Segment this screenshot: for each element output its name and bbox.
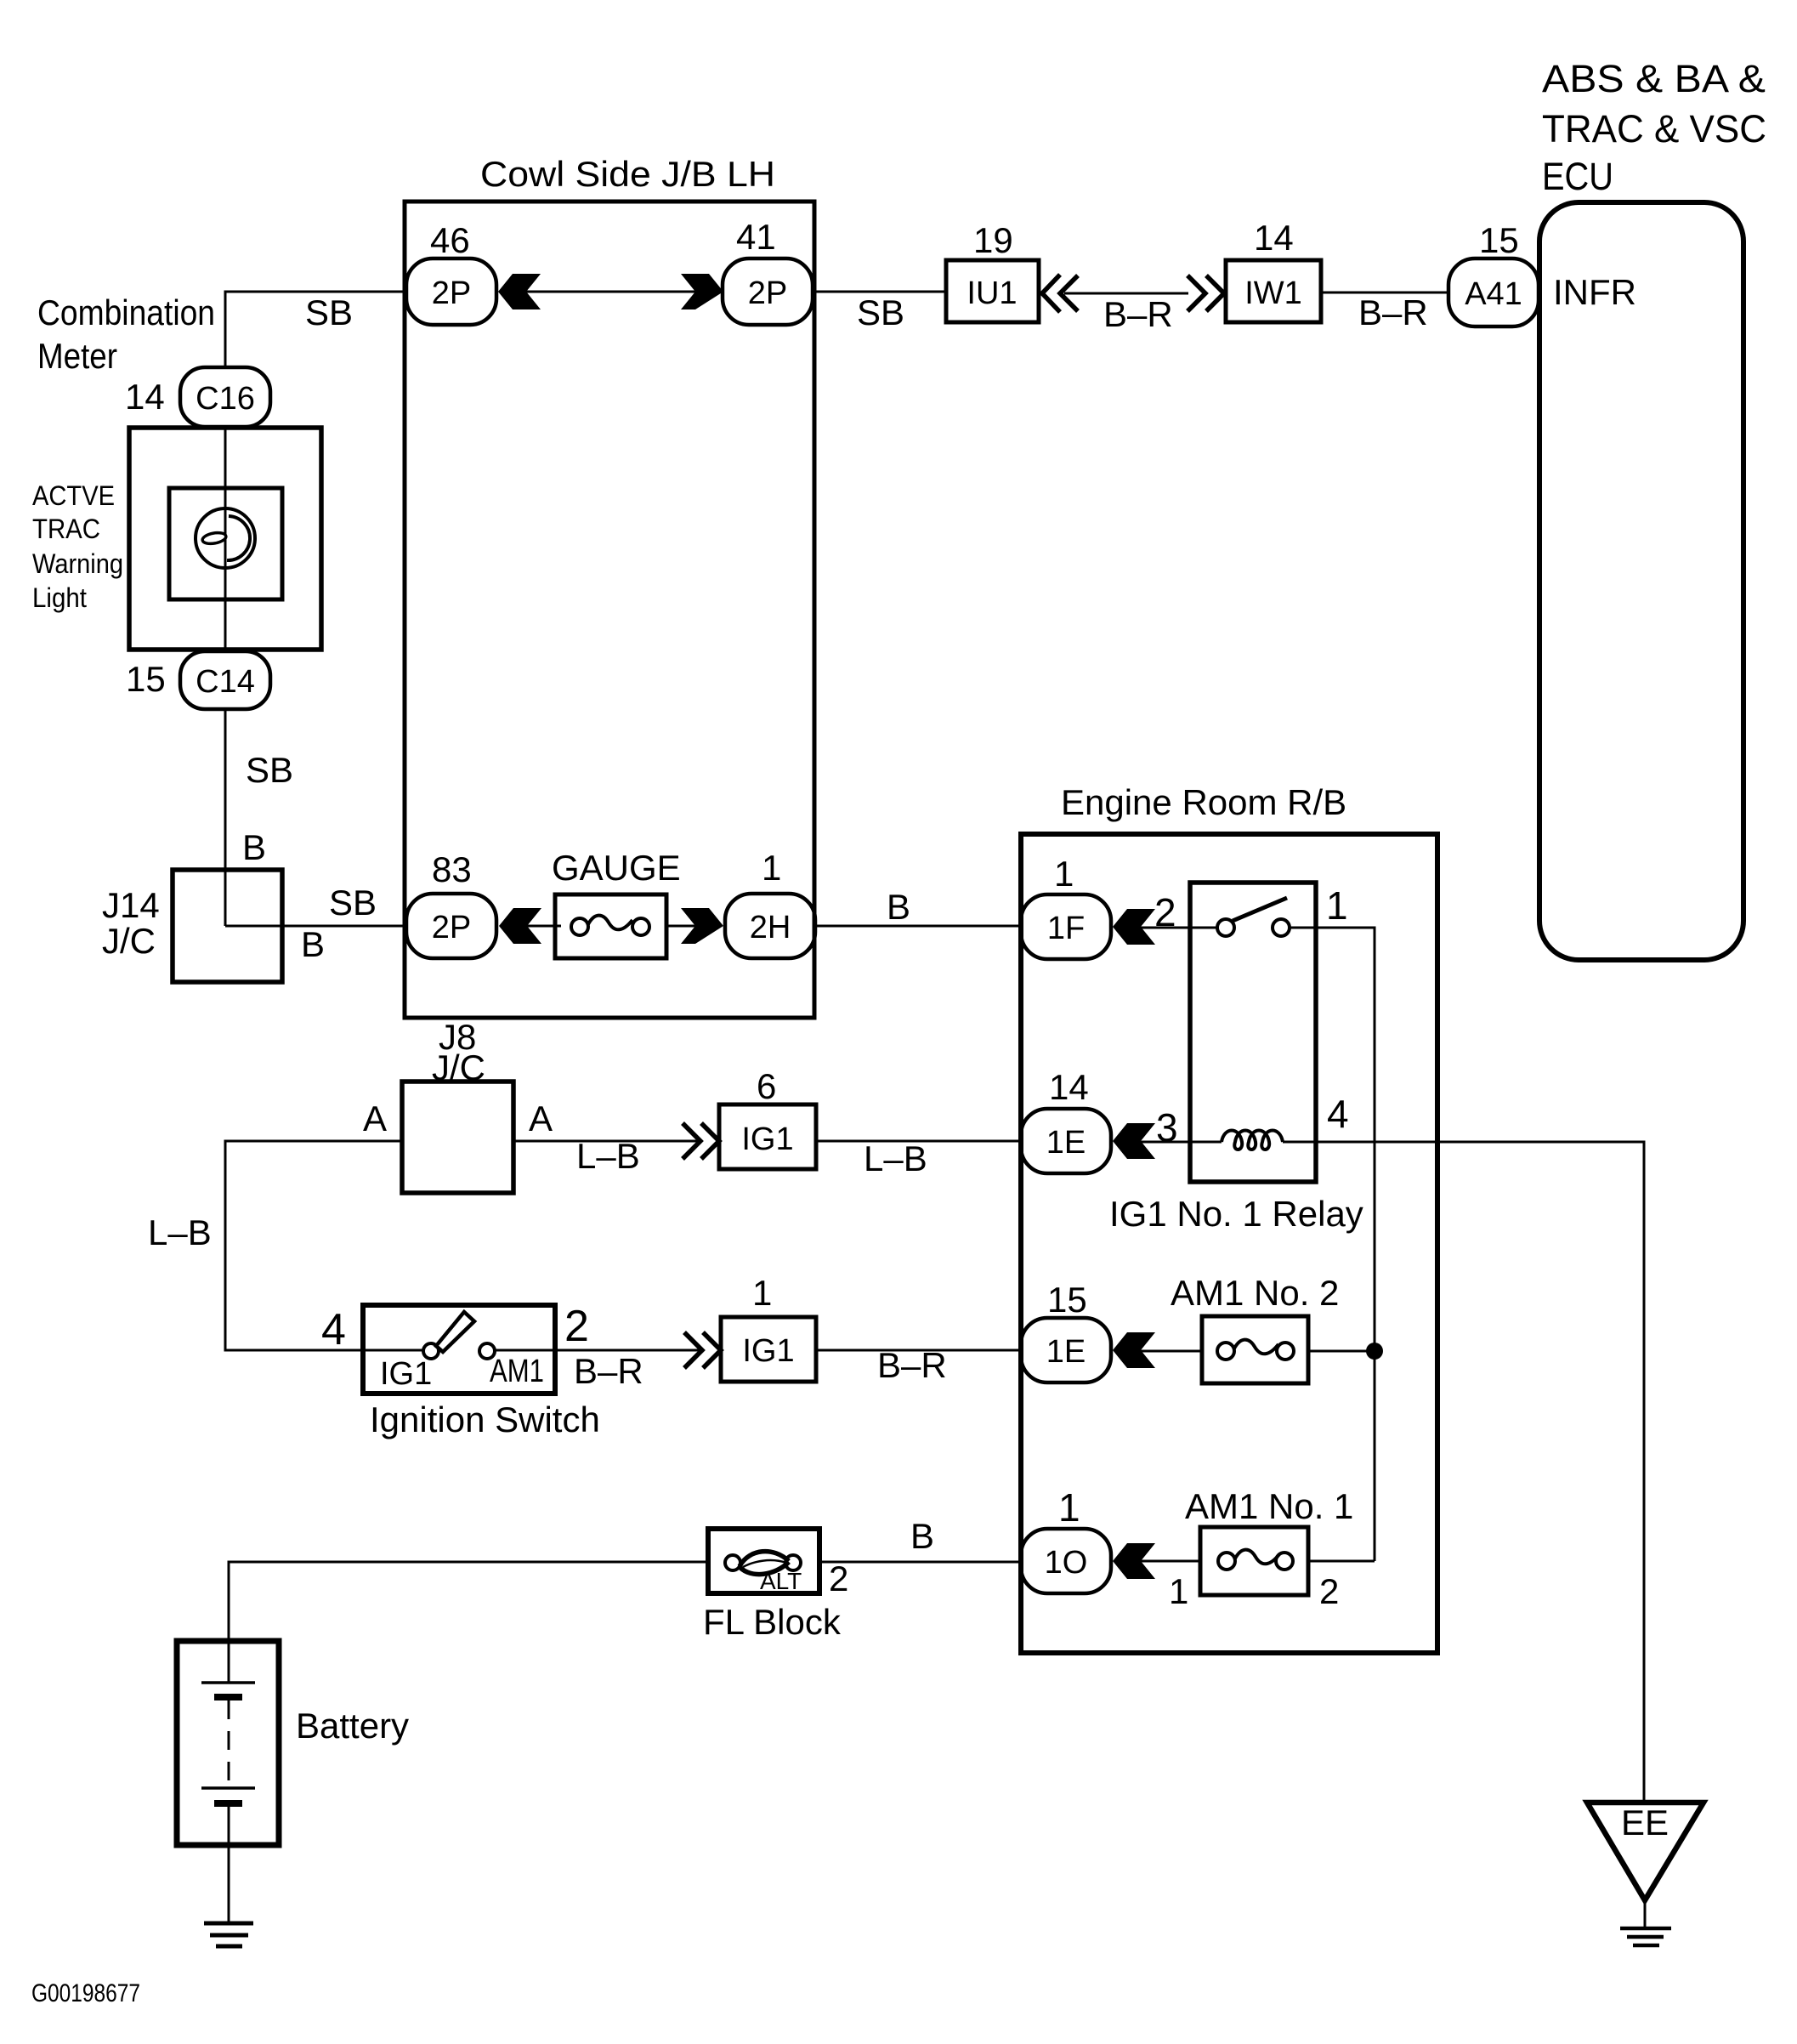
wire J8 to IG1 connector, label L-B — [513, 1140, 700, 1143]
svg-text:1: 1 — [1054, 854, 1074, 894]
arrow into 1E-15 — [1113, 1332, 1155, 1368]
Combination Meter label — [37, 292, 215, 376]
connector 83 2P — [406, 849, 496, 958]
svg-text:Engine Room R/B: Engine Room R/B — [1061, 782, 1346, 822]
svg-text:A41: A41 — [1465, 276, 1522, 312]
svg-text:TRAC: TRAC — [32, 514, 100, 544]
connector 1 IG1 — [721, 1273, 816, 1382]
relay coil — [1222, 1131, 1283, 1150]
svg-text:14: 14 — [125, 377, 165, 417]
arrow into 1O, pin 1 — [1113, 1543, 1155, 1579]
svg-text:IG1: IG1 — [742, 1333, 794, 1369]
svg-text:C14: C14 — [196, 664, 255, 700]
svg-text:B: B — [242, 827, 266, 867]
junction dot — [1366, 1343, 1383, 1360]
svg-text:1O: 1O — [1045, 1545, 1088, 1581]
svg-text:1E: 1E — [1046, 1125, 1086, 1161]
wire to GAUGE fuse — [527, 925, 561, 928]
svg-text:1: 1 — [752, 1273, 772, 1313]
connector 6 IG1 — [719, 1066, 816, 1169]
svg-text:2P: 2P — [432, 910, 471, 945]
svg-text:AM1: AM1 — [490, 1354, 544, 1389]
svg-text:EE: EE — [1621, 1803, 1669, 1842]
svg-text:1E: 1E — [1046, 1334, 1086, 1370]
svg-text:AM1 No. 1: AM1 No. 1 — [1185, 1486, 1353, 1526]
svg-text:ACTVE: ACTVE — [32, 480, 115, 511]
wire SB from combination meter to 2P-46 — [225, 292, 406, 368]
svg-text:Meter: Meter — [37, 336, 117, 376]
svg-text:IG1: IG1 — [380, 1356, 432, 1392]
connector 1 2H — [725, 848, 815, 958]
connector 41 2P — [723, 217, 813, 325]
svg-text:L–B: L–B — [148, 1212, 212, 1252]
lamp bulb — [196, 508, 255, 568]
fuse FL Block ALT fusible link — [708, 1529, 819, 1594]
chevrons >> into IG1 — [683, 1123, 719, 1159]
Engine Room R/B box — [1021, 834, 1437, 1653]
svg-text:B: B — [887, 887, 910, 927]
svg-text:Ignition Switch: Ignition Switch — [370, 1400, 600, 1439]
wire between 2P-46 and 2P-41 — [526, 291, 695, 293]
svg-text:IU1: IU1 — [967, 275, 1017, 311]
wire 2P-41 to IU1, SB — [813, 291, 946, 293]
svg-text:G00198677: G00198677 — [31, 1979, 140, 2007]
ACTVE TRAC warning light outer box — [129, 428, 321, 650]
ignition switch box — [321, 1302, 589, 1394]
arrow into 2H — [681, 908, 723, 944]
svg-text:83: 83 — [432, 849, 472, 889]
battery cell symbol — [201, 1641, 255, 1845]
wire battery to FL block — [229, 1562, 708, 1641]
wire J8 left down to ignition switch, labels A and L-B — [225, 1141, 402, 1350]
svg-text:15: 15 — [1047, 1280, 1087, 1320]
connector 14 1E — [1021, 1067, 1111, 1173]
svg-text:46: 46 — [430, 220, 470, 260]
svg-text:Warning: Warning — [32, 548, 123, 579]
connector 15 1E — [1021, 1280, 1111, 1383]
svg-text:A: A — [363, 1099, 387, 1138]
connector 15 C14 — [126, 651, 270, 709]
svg-text:1: 1 — [1058, 1485, 1080, 1530]
svg-text:INFR: INFR — [1553, 272, 1636, 312]
svg-text:IW1: IW1 — [1244, 275, 1302, 311]
svg-text:B: B — [910, 1516, 934, 1556]
svg-text:GAUGE: GAUGE — [552, 848, 681, 888]
svg-text:SB: SB — [857, 292, 904, 332]
svg-text:2: 2 — [829, 1559, 848, 1598]
arrow into 1F, pin 2 — [1113, 909, 1155, 945]
fuse AM1 No. 1 — [1185, 1486, 1353, 1595]
wire C14 down to J14, SB and B labels — [224, 709, 227, 926]
ground under battery — [204, 1923, 253, 1946]
connector 1 1F — [1021, 854, 1111, 959]
svg-text:A: A — [529, 1099, 553, 1138]
connector 46 2P — [406, 220, 496, 325]
svg-text:J/C: J/C — [102, 921, 156, 961]
svg-text:L–B: L–B — [864, 1138, 927, 1178]
svg-text:J14: J14 — [102, 885, 160, 925]
svg-text:B: B — [301, 924, 325, 964]
ABS & BA & TRAC & VSC ECU label — [1542, 57, 1766, 198]
relay contact — [1217, 898, 1290, 936]
wire fuse to junction vertical — [1308, 1560, 1375, 1563]
arrow into 2P-41 — [681, 274, 723, 309]
wire IG1-1 to 1E-15, label B-R — [816, 1349, 1021, 1352]
wire J14 to 2P-83, SB above B below — [225, 925, 406, 928]
connector 1 1O — [1021, 1485, 1111, 1593]
junction J8 J/C label — [432, 1017, 485, 1087]
svg-text:19: 19 — [973, 220, 1013, 260]
svg-text:SB: SB — [305, 292, 353, 332]
arrow into 1E, pin 3 — [1113, 1123, 1155, 1159]
warning light inner box — [169, 488, 282, 599]
fuse GAUGE — [552, 848, 681, 958]
relay IG1 No.1 box — [1190, 883, 1316, 1182]
svg-text:4: 4 — [1327, 1092, 1349, 1136]
svg-text:SB: SB — [329, 883, 377, 923]
connector 15 A41 — [1448, 220, 1539, 326]
svg-text:B–R: B–R — [1358, 292, 1428, 332]
junction J8 box — [402, 1082, 513, 1193]
svg-text:2P: 2P — [432, 275, 471, 311]
wire FL block to 1O, label B — [819, 1561, 1021, 1564]
svg-text:6: 6 — [757, 1066, 776, 1106]
wire fuse to arrow — [666, 925, 697, 928]
svg-text:14: 14 — [1049, 1067, 1089, 1107]
wire through warning light — [224, 427, 227, 651]
junction J14 J/C box — [102, 870, 282, 982]
svg-text:C16: C16 — [196, 381, 255, 417]
svg-text:SB: SB — [246, 750, 293, 790]
battery box — [177, 1641, 279, 1845]
Cowl Side J/B box — [405, 202, 814, 1018]
svg-text:TRAC & VSC: TRAC & VSC — [1542, 107, 1766, 150]
svg-text:4: 4 — [321, 1305, 346, 1354]
wire to AM1 No.1 fuse — [1141, 1560, 1200, 1563]
svg-text:Cowl Side J/B LH: Cowl Side J/B LH — [480, 154, 775, 194]
chevrons >> into IG1-1 — [684, 1332, 721, 1368]
svg-text:14: 14 — [1254, 218, 1294, 258]
svg-text:15: 15 — [1479, 220, 1519, 260]
wire IG1 to 1E-14, label L-B — [816, 1140, 1021, 1143]
connector 14 IW1 — [1226, 218, 1321, 322]
svg-text:L–B: L–B — [576, 1136, 640, 1176]
svg-text:Battery: Battery — [296, 1706, 409, 1746]
svg-text:Combination: Combination — [37, 292, 215, 332]
svg-text:ALT: ALT — [760, 1568, 802, 1594]
svg-text:B–R: B–R — [877, 1345, 947, 1385]
connector 19 IU1 — [946, 220, 1039, 322]
svg-text:41: 41 — [736, 217, 776, 257]
svg-text:ABS & BA &: ABS & BA & — [1542, 57, 1766, 100]
ground EE triangle — [1587, 1803, 1703, 1945]
wire B-R between chevrons — [1064, 292, 1188, 295]
chevrons >> at IW1 — [1188, 275, 1224, 311]
wire fuse to junction — [1308, 1350, 1375, 1353]
svg-text:IG1 No. 1 Relay: IG1 No. 1 Relay — [1109, 1194, 1363, 1234]
svg-text:2H: 2H — [750, 910, 791, 945]
connector 14 C16 — [125, 367, 270, 427]
ACTVE TRAC Warning Light label — [32, 480, 123, 613]
ECU box — [1539, 202, 1743, 960]
svg-text:1: 1 — [1326, 883, 1348, 928]
arrow into 2P-46 — [498, 274, 541, 309]
svg-text:1: 1 — [1169, 1571, 1188, 1611]
fuse AM1 No. 2 — [1171, 1273, 1339, 1383]
svg-text:IG1: IG1 — [741, 1121, 793, 1157]
svg-text:AM1 No. 2: AM1 No. 2 — [1171, 1273, 1339, 1313]
wire IW1 to A41, B-R — [1321, 292, 1448, 294]
chevrons << at IU1 — [1042, 275, 1078, 312]
wire to AM1 No.2 fuse — [1141, 1350, 1202, 1353]
svg-text:1: 1 — [762, 848, 781, 888]
wire ignition to IG1-1, label B-R — [363, 1349, 423, 1352]
wire battery to ground — [228, 1845, 230, 1923]
svg-text:2P: 2P — [748, 275, 787, 311]
svg-text:B–R: B–R — [574, 1351, 643, 1391]
svg-text:FL Block: FL Block — [703, 1602, 842, 1642]
svg-text:B–R: B–R — [1103, 294, 1173, 334]
svg-text:2: 2 — [1319, 1571, 1339, 1611]
svg-text:ECU: ECU — [1542, 155, 1613, 198]
svg-text:15: 15 — [126, 659, 166, 699]
wire to relay coil — [1141, 1141, 1222, 1144]
svg-text:2: 2 — [564, 1302, 589, 1351]
arrow into 2P-83 — [499, 908, 541, 944]
svg-text:1F: 1F — [1047, 911, 1085, 946]
svg-text:Light: Light — [32, 582, 87, 613]
wire 2H to 1F, label B — [815, 925, 1021, 928]
wire arrow to relay contact — [1141, 927, 1218, 929]
